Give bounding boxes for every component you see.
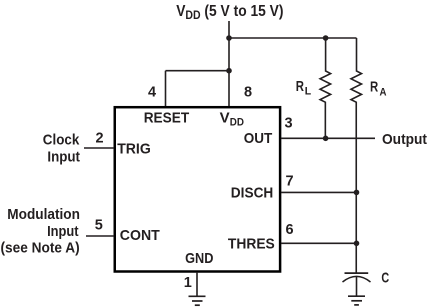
svg-text:Clock: Clock [43, 132, 80, 148]
svg-text:8: 8 [244, 85, 252, 101]
svg-text:Output: Output [382, 132, 427, 148]
wire DISCH [281, 191, 357, 193]
ground below capacitor [348, 296, 365, 305]
junction RL bottom on OUT line [323, 136, 329, 142]
svg-text:L: L [305, 85, 312, 97]
svg-text:Modulation: Modulation [7, 207, 80, 223]
wire pin4 vertical [165, 71, 167, 107]
svg-text:TRIG: TRIG [117, 142, 151, 158]
capacitor C [343, 273, 371, 282]
svg-text:1: 1 [184, 275, 192, 291]
svg-text:CONT: CONT [120, 228, 160, 244]
svg-text:OUT: OUT [244, 131, 273, 147]
junction DISCH-RA [354, 190, 360, 196]
svg-text:Input: Input [47, 224, 79, 240]
wire pin8 vertical [228, 38, 230, 107]
IC U1 555 timer box [115, 107, 280, 271]
svg-text:4: 4 [148, 85, 156, 101]
wire VDD stub down from label [228, 21, 230, 38]
ground below pin 1 [189, 296, 206, 305]
svg-text:R: R [296, 78, 304, 95]
junction VDD rail at stub [226, 35, 232, 41]
svg-text:THRES: THRES [228, 237, 275, 253]
wire OUT to Output [281, 137, 375, 139]
svg-text:V: V [220, 110, 230, 126]
wire THRES [281, 242, 357, 244]
wire top supply rail [229, 37, 357, 39]
svg-text:6: 6 [285, 222, 293, 238]
svg-text:Input: Input [47, 149, 80, 165]
svg-text:(see Note A): (see Note A) [1, 240, 80, 256]
svg-text:5: 5 [95, 217, 103, 233]
wire pin2 TRIG [84, 147, 114, 149]
junction reset branch [226, 68, 232, 74]
junction THRES-RA [354, 241, 360, 247]
svg-text:A: A [380, 86, 387, 98]
svg-text:DD: DD [230, 116, 244, 128]
junction VDD rail at RL top [323, 35, 329, 41]
net VDD supply label [176, 3, 283, 22]
wire pin5 CONT [86, 235, 114, 237]
wire reset branch horizontal [166, 70, 230, 72]
svg-text:7: 7 [285, 174, 293, 190]
svg-text:R: R [370, 79, 378, 96]
resistor RA [351, 38, 362, 273]
svg-text:RESET: RESET [144, 110, 190, 126]
svg-text:3: 3 [285, 116, 293, 132]
svg-text:DISCH: DISCH [231, 185, 273, 201]
wire pin1 down [196, 272, 198, 296]
wire capacitor to ground [356, 277, 358, 296]
svg-text:GND: GND [185, 251, 214, 267]
svg-text:C: C [381, 270, 389, 286]
resistor RL [320, 38, 331, 138]
svg-text:2: 2 [95, 130, 103, 146]
